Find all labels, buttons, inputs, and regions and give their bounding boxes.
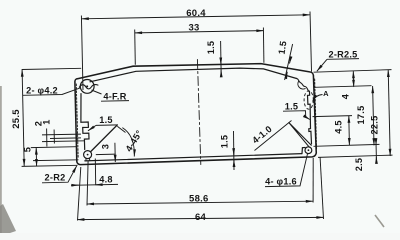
right wall serration texture	[315, 79, 317, 149]
dim 1.5 top-left wall thickness	[220, 41, 223, 77]
ext top 25.5	[22, 68, 81, 69]
center dots of corner holes	[86, 85, 88, 87]
svg-text:1.5: 1.5	[206, 41, 216, 55]
svg-text:2-R2.5: 2-R2.5	[328, 50, 357, 60]
screw port top-right partial circle	[297, 78, 309, 91]
svg-text:1.5: 1.5	[277, 40, 289, 55]
dim 2 line	[46, 129, 48, 147]
left wall inner line and slot	[81, 94, 89, 150]
dim 17.5 line	[373, 86, 374, 145]
dim 22.5 line	[388, 70, 390, 156]
ext left 64	[78, 167, 81, 221]
dim 3 line	[114, 143, 116, 162]
svg-text:1.5: 1.5	[285, 102, 299, 112]
dim 5 line	[35, 147, 37, 166]
leader 2-R2	[42, 166, 77, 183]
svg-text:2-R2: 2-R2	[45, 173, 66, 183]
svg-text:17.5: 17.5	[356, 106, 366, 125]
ext right 58.6	[312, 158, 314, 203]
detail A hook leader	[313, 95, 323, 102]
svg-text:25.5: 25.5	[11, 109, 22, 129]
svg-text:A: A	[323, 89, 329, 98]
ext lines for dim 2 and 1 (left slot)	[42, 133, 81, 136]
bottom-right corner boss step	[302, 148, 305, 154]
dim 4.8 line	[71, 183, 118, 186]
ext right 60.4	[310, 12, 312, 72]
svg-text:3: 3	[101, 144, 111, 149]
ext left 33	[134, 30, 137, 65]
profile outer contour	[75, 64, 316, 165]
dim 4.5 (right) line	[348, 116, 351, 146]
dim 2.5 line	[375, 139, 378, 163]
dim 60.4 line	[82, 15, 310, 19]
right wall inner line with detail notch and jog	[308, 92, 312, 144]
leader 1.5 left slot	[88, 125, 118, 131]
svg-text:4.5: 4.5	[334, 120, 344, 134]
svg-text:64: 64	[195, 212, 207, 223]
ext right 4.8 (from boss down)	[94, 159, 96, 186]
svg-text:22.5: 22.5	[370, 116, 380, 135]
leader 4-F.R	[92, 90, 130, 101]
svg-text:4- φ1.6: 4- φ1.6	[265, 177, 297, 187]
ext right 64	[320, 158, 323, 220]
dim 1.5 top-right wall thickness	[285, 44, 293, 80]
dim 4 (right) line	[352, 71, 354, 87]
leader / underline 4-1.0	[255, 121, 292, 151]
svg-text:2.5: 2.5	[354, 158, 364, 172]
diagonal rib bottom-left	[91, 125, 117, 151]
diagonal rib bottom-right (1.0 thick)	[289, 123, 311, 148]
dim 33 line	[135, 31, 264, 33]
svg-text:58.6: 58.6	[189, 194, 209, 205]
right ext line second (4 bottom / 17.5 top)	[315, 86, 372, 88]
svg-text:1: 1	[42, 119, 52, 124]
right ext line outer-bottom level	[318, 155, 393, 157]
svg-text:4: 4	[341, 93, 351, 99]
angle dim arc 4-45	[117, 126, 134, 156]
dim 58.6 line	[87, 201, 313, 204]
ext left 60.4	[81, 16, 83, 91]
svg-text:4.8: 4.8	[99, 175, 113, 185]
centerline (dash-dot)	[197, 60, 200, 165]
inner bottom wall line	[85, 154, 302, 161]
left wall serration texture	[76, 84, 78, 158]
dim 3 ext line	[96, 153, 116, 156]
ext right 33	[262, 28, 265, 63]
profile inner top wall line	[90, 68, 297, 82]
leader 2-phi4.2	[23, 88, 81, 96]
svg-text:4-F.R: 4-F.R	[103, 92, 126, 102]
right small ext for 4.5 top	[313, 116, 353, 117]
svg-text:1.5: 1.5	[220, 135, 230, 149]
leader 4-phi1.6	[265, 154, 308, 187]
dim 25.5 line	[22, 70, 24, 167]
ext lines for dim 5	[31, 146, 77, 149]
corner boss hole bottom-left (phi 1.6)	[84, 151, 92, 159]
dim 1.5 bottom wall thickness	[233, 131, 236, 170]
svg-text:60.4: 60.4	[186, 8, 206, 19]
svg-text:1.5: 1.5	[99, 115, 113, 125]
dim 1 line	[53, 130, 55, 144]
screw port circle top-left (phi 4.2)	[80, 80, 94, 94]
detail A dashed ellipse	[304, 91, 313, 109]
corner boss hole bottom-right (phi 1.6)	[305, 147, 312, 154]
scan edge marks	[0, 86, 2, 233]
svg-text:2- φ4.2: 2- φ4.2	[26, 86, 58, 96]
svg-text:5: 5	[23, 147, 33, 152]
break squiggle through top-left port	[79, 85, 98, 89]
dim 64 line	[77, 217, 323, 219]
ext bottom 25.5	[22, 165, 78, 166]
leader 2-R2.5	[317, 59, 359, 72]
svg-text:33: 33	[188, 23, 199, 34]
right ext line inner-bottom level	[314, 144, 380, 146]
leader 1.5 right wall	[283, 111, 310, 120]
right side ext line top (22.5 / 4)	[314, 70, 392, 73]
ext left 58.6	[87, 161, 88, 206]
